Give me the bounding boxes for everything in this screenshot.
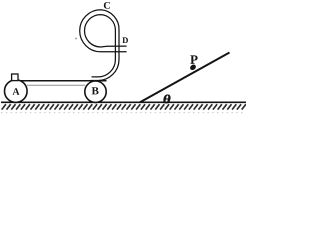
label D (122, 37, 128, 43)
wheel A (5, 80, 28, 103)
angle theta (164, 95, 171, 104)
block on plank (12, 74, 18, 81)
plank bottom edge (faint) (27, 84, 85, 86)
point P marker (189, 63, 197, 71)
track outer rail (trolley end, up-bend, stem, loop, exit stub) (80, 10, 127, 81)
label A (12, 88, 19, 95)
incline (140, 53, 230, 103)
label P (190, 55, 197, 64)
scan speck (75, 38, 77, 40)
plank (trolley platform) (11, 80, 106, 82)
wheel B (85, 81, 106, 102)
label B (92, 87, 99, 94)
scan echo dots under hatching (1, 112, 243, 113)
track inner rail (85, 15, 127, 77)
ground (1, 101, 246, 103)
label C (104, 2, 110, 9)
ground hatching (2, 104, 246, 109)
